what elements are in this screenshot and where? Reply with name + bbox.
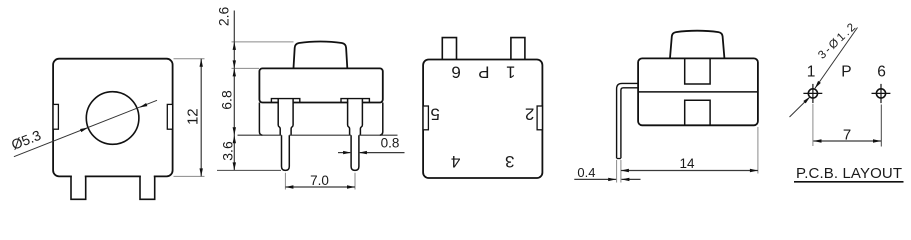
svg-text:6: 6 bbox=[877, 63, 886, 80]
front view left leg bbox=[71, 175, 86, 200]
pcb hole label 6 bbox=[877, 63, 886, 80]
svg-text:3.6: 3.6 bbox=[219, 141, 235, 161]
pcb hole 1 bbox=[803, 84, 822, 103]
leader 3-Ø1.2 bbox=[790, 20, 860, 117]
svg-text:Ø5.3: Ø5.3 bbox=[9, 127, 43, 153]
dimension 12 extension lines bbox=[174, 59, 205, 177]
P.C.B. LAYOUT title bbox=[794, 165, 904, 182]
svg-text:1: 1 bbox=[807, 63, 816, 80]
bottom view right notch bbox=[537, 106, 542, 130]
dimension 3.6 bottom extension line bbox=[217, 169, 281, 171]
pin label 2 bbox=[525, 105, 534, 124]
svg-text:6: 6 bbox=[451, 62, 460, 81]
pcb hole label P bbox=[841, 63, 851, 80]
bent-leg view mid seam bbox=[638, 91, 758, 93]
svg-text:P: P bbox=[478, 62, 489, 81]
side view right leg narrow pin bbox=[351, 135, 359, 170]
front view left side notch bbox=[53, 104, 58, 129]
svg-text:0.4: 0.4 bbox=[577, 165, 595, 180]
dimension 7.0 extension lines bbox=[285, 173, 355, 190]
front view actuator circle bbox=[86, 92, 139, 145]
dimension 14 extension line bbox=[757, 127, 759, 174]
svg-text:4: 4 bbox=[451, 152, 460, 171]
side view right body skirt bbox=[380, 103, 383, 136]
bent leg wire bbox=[617, 83, 639, 158]
svg-text:7.0: 7.0 bbox=[310, 173, 329, 188]
bent-leg view lower center notch bbox=[685, 100, 710, 125]
leg crimp seam line right segment bbox=[359, 134, 398, 136]
pin label P bbox=[478, 62, 489, 81]
pcb hole label 1 bbox=[807, 63, 816, 80]
side view right leg wide part bbox=[348, 99, 363, 136]
bent-leg view upper center notch bbox=[685, 58, 710, 84]
dimension 3.6 bbox=[219, 135, 236, 170]
pin label 4 bbox=[451, 152, 460, 171]
svg-text:2: 2 bbox=[525, 105, 534, 124]
dimension 0.4 leg extension lines bbox=[617, 160, 621, 183]
dimension 7.0 bbox=[285, 173, 355, 189]
svg-text:7: 7 bbox=[843, 126, 851, 143]
bottom view left notch bbox=[423, 106, 428, 130]
svg-text:0.8: 0.8 bbox=[381, 136, 400, 151]
bent-leg view button bbox=[670, 31, 724, 58]
pin label 3 bbox=[505, 152, 514, 171]
pcb hole 6 bbox=[872, 84, 891, 103]
dimension leader line Ø5.3 bbox=[9, 100, 157, 156]
dimension 2.6 extension lines bbox=[232, 42, 294, 69]
dimension 0.4 bbox=[574, 165, 640, 181]
svg-text:6.8: 6.8 bbox=[218, 90, 234, 110]
bottom view body bbox=[423, 60, 542, 179]
dimension 7 extension lines bbox=[813, 104, 881, 147]
side view body bbox=[259, 68, 382, 104]
front view body bbox=[53, 59, 173, 177]
dimension 2.6 bbox=[216, 6, 237, 68]
bottom view left top tab bbox=[442, 38, 456, 59]
svg-text:5: 5 bbox=[430, 105, 439, 124]
svg-text:12: 12 bbox=[185, 108, 202, 125]
svg-text:P.C.B. LAYOUT: P.C.B. LAYOUT bbox=[796, 165, 902, 182]
pin label 5 bbox=[430, 105, 439, 124]
front view right side notch bbox=[167, 104, 172, 129]
dimension 12 bbox=[185, 59, 203, 177]
svg-text:2.6: 2.6 bbox=[216, 6, 232, 26]
svg-text:3: 3 bbox=[505, 152, 514, 171]
front view right leg bbox=[140, 175, 155, 200]
side view left leg seat notch bbox=[271, 99, 299, 103]
dimension 7 bbox=[813, 126, 881, 143]
bottom view right top tab bbox=[511, 38, 525, 59]
leg crimp seam line middle segment bbox=[289, 134, 351, 136]
dimension 0.8 bbox=[338, 136, 405, 155]
leg crimp seam line left segment bbox=[238, 134, 282, 136]
bent-leg view body bbox=[638, 58, 758, 125]
side view left leg wide part bbox=[278, 99, 293, 136]
pin label 1 bbox=[506, 62, 515, 81]
dimension 6.8 bbox=[218, 68, 236, 170]
pin label 6 bbox=[451, 62, 460, 81]
side view button bbox=[294, 42, 348, 69]
svg-text:P: P bbox=[841, 63, 851, 80]
side view left leg narrow pin bbox=[282, 135, 290, 170]
side view right leg seat notch bbox=[341, 99, 369, 103]
side view left body skirt bbox=[259, 103, 262, 136]
dimension 14 bbox=[621, 156, 758, 172]
svg-text:14: 14 bbox=[679, 156, 695, 171]
svg-text:1: 1 bbox=[506, 62, 515, 81]
